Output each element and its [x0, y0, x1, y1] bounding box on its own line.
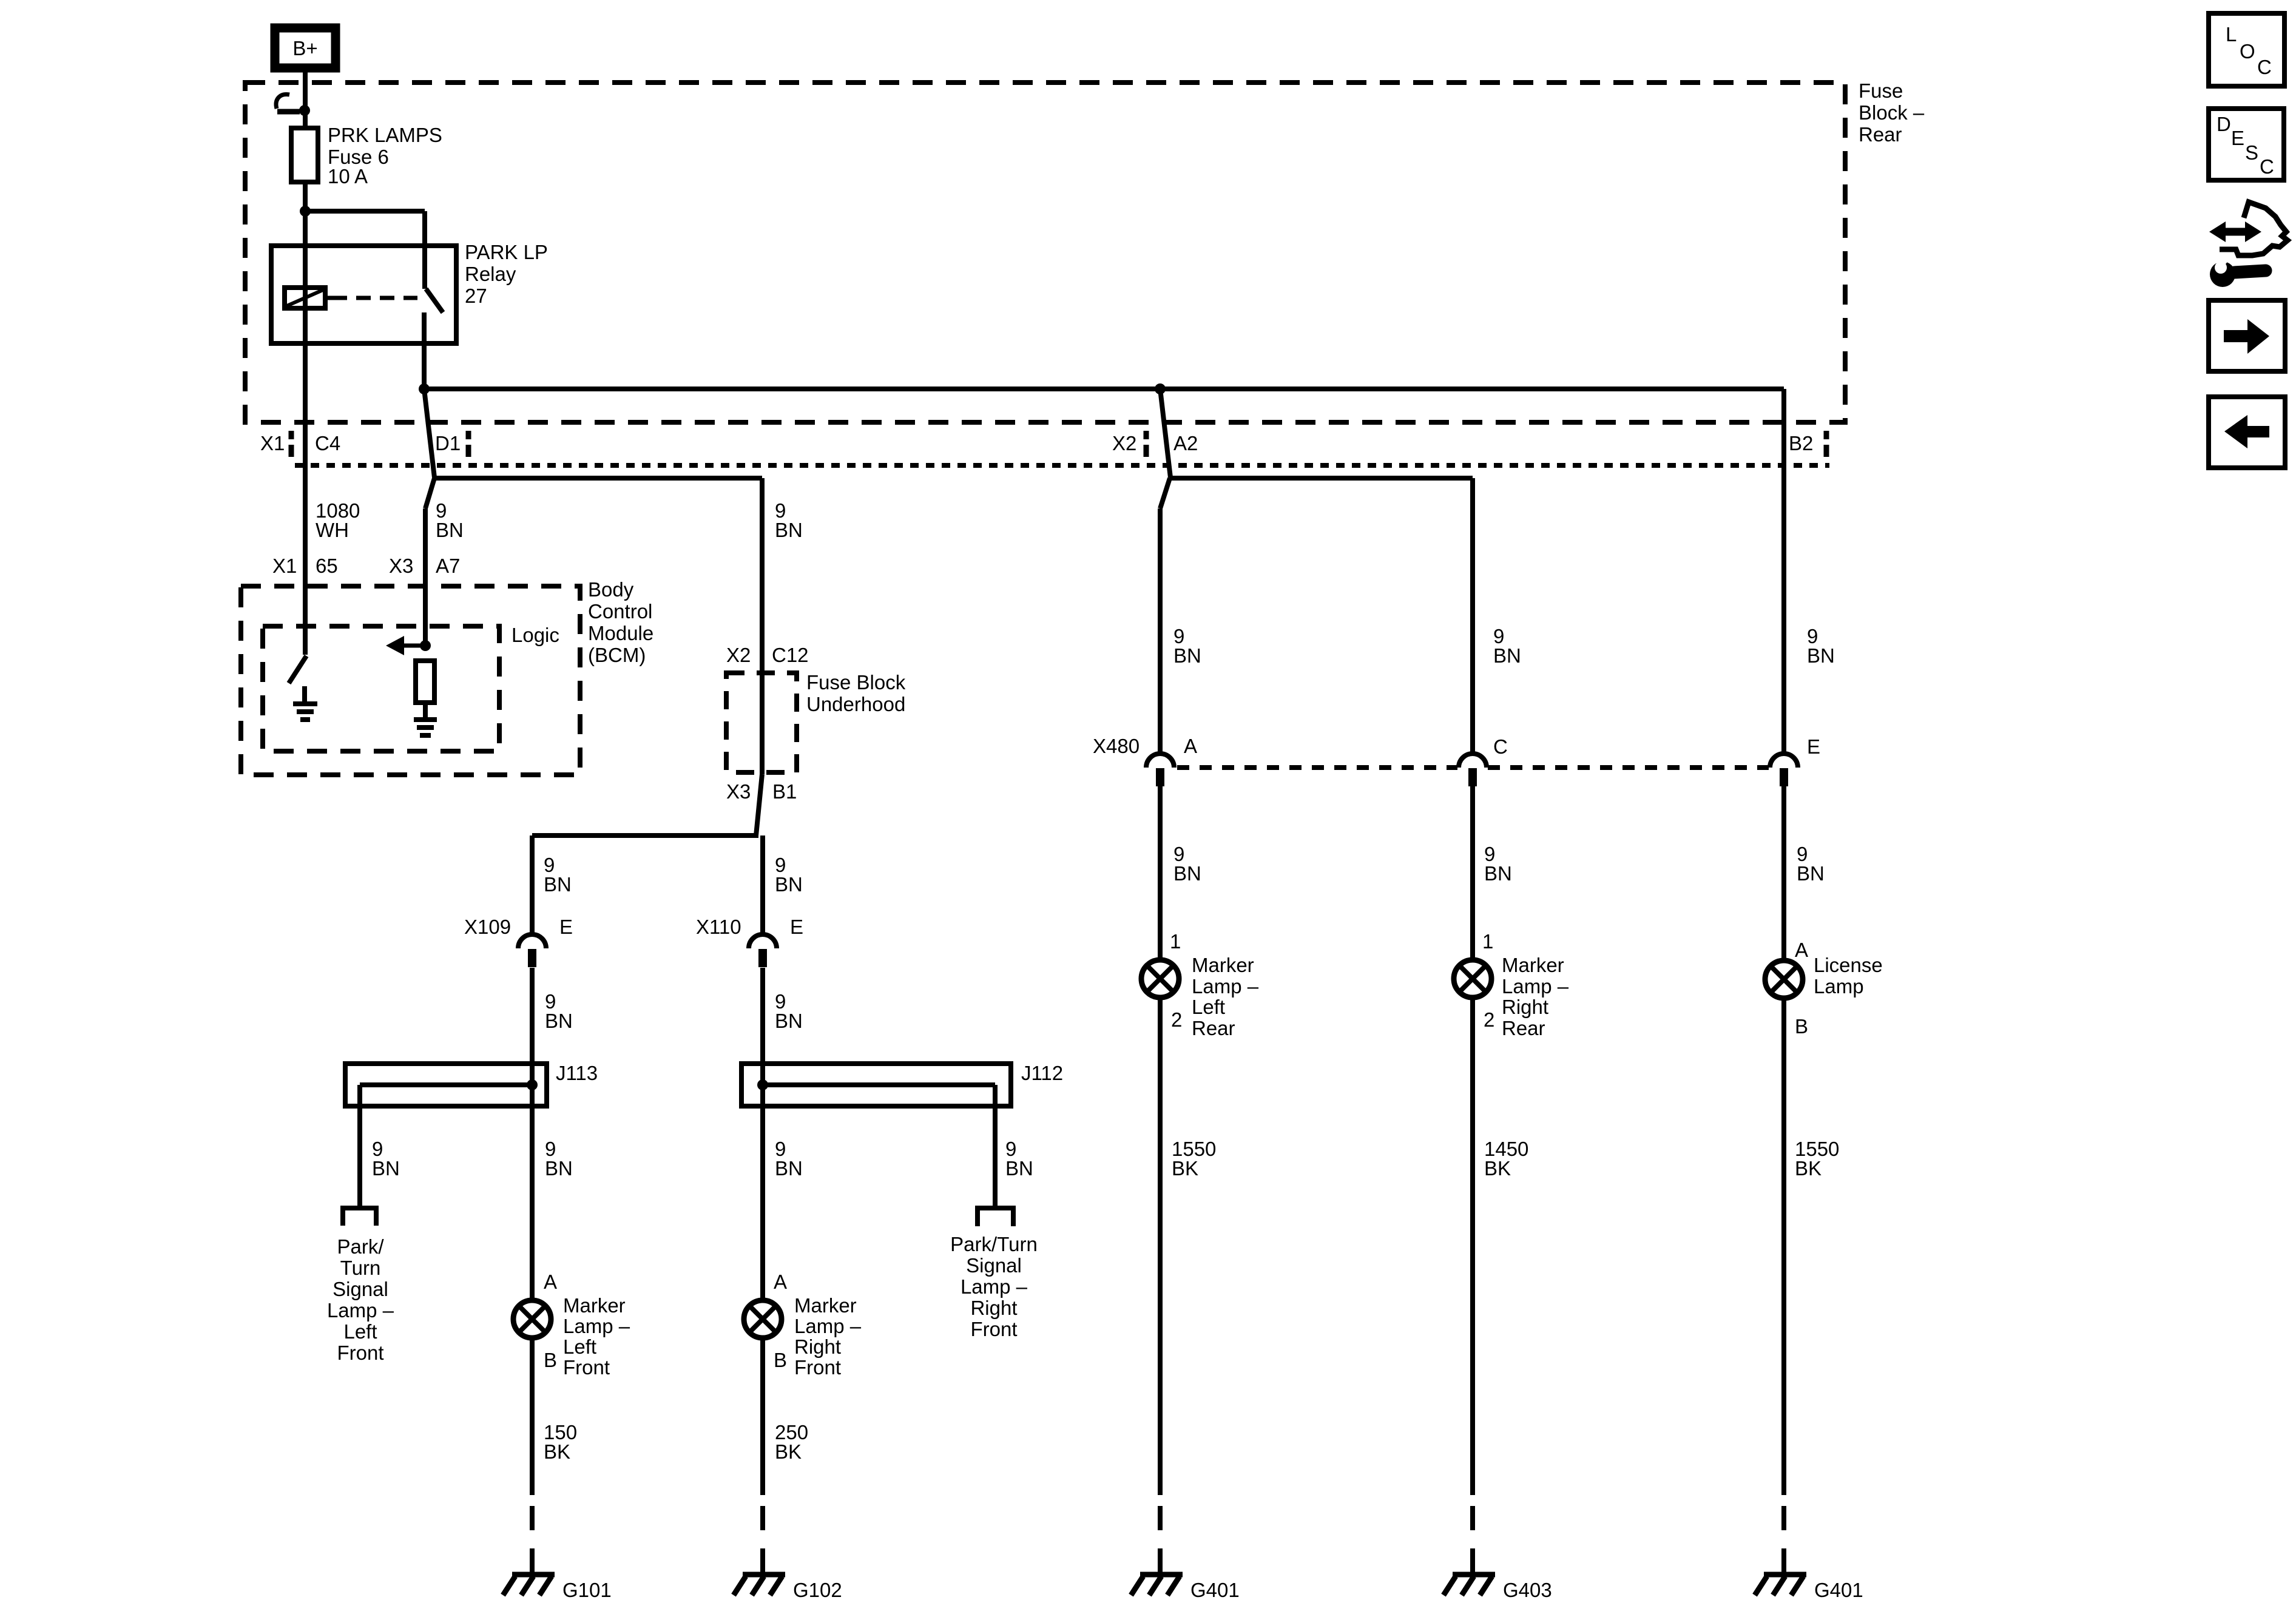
- svg-text:BK: BK: [1795, 1157, 1822, 1180]
- svg-text:X109: X109: [464, 916, 511, 938]
- connector tick X1|C4: [289, 431, 294, 439]
- svg-text:Front: Front: [970, 1318, 1017, 1340]
- svg-text:Lamp –: Lamp –: [563, 1315, 630, 1337]
- svg-text:10 A: 10 A: [328, 165, 368, 187]
- svg-text:A: A: [1184, 735, 1197, 757]
- relay switch output contact wire: [422, 312, 427, 389]
- svg-text:BN: BN: [545, 1157, 573, 1180]
- svg-text:A: A: [1795, 939, 1808, 961]
- svg-text:D1: D1: [435, 432, 461, 454]
- unterminated connector park/turn left front: [340, 1206, 379, 1210]
- svg-text:D: D: [2217, 113, 2231, 135]
- svg-text:X1: X1: [272, 555, 297, 577]
- svg-text:X110: X110: [696, 916, 741, 938]
- svg-text:Lamp –: Lamp –: [961, 1275, 1028, 1298]
- lamp: Marker Lamp - Right Rear: [1454, 960, 1491, 998]
- svg-text:BN: BN: [775, 1010, 803, 1032]
- svg-text:BN: BN: [436, 519, 464, 541]
- icon wrench: [2210, 262, 2235, 287]
- svg-text:Lamp –: Lamp –: [794, 1315, 862, 1337]
- connector X480 pin C symbol: [1459, 754, 1487, 768]
- svg-text:Park/Turn: Park/Turn: [950, 1233, 1038, 1255]
- connector X480 dashed line: [1177, 765, 1457, 770]
- connector X480 pin E symbol: [1770, 754, 1798, 768]
- svg-text:Marker: Marker: [1502, 954, 1564, 976]
- svg-text:BN: BN: [1173, 644, 1201, 667]
- svg-text:A7: A7: [436, 555, 460, 577]
- svg-text:Lamp –: Lamp –: [1502, 975, 1569, 998]
- node: tap junction dot: [299, 105, 310, 116]
- svg-text:(BCM): (BCM): [588, 644, 646, 666]
- svg-text:J113: J113: [556, 1062, 598, 1084]
- svg-text:Block –: Block –: [1859, 101, 1925, 124]
- svg-text:Marker: Marker: [1192, 954, 1254, 976]
- svg-text:B: B: [544, 1349, 557, 1371]
- wire lamp right rear to ground: [1470, 998, 1475, 1495]
- ground (BCM internal, switch): [293, 701, 317, 706]
- svg-text:B2: B2: [1789, 432, 1813, 454]
- lamp: License Lamp: [1765, 960, 1803, 998]
- svg-text:BN: BN: [544, 873, 572, 896]
- svg-text:Relay: Relay: [465, 263, 516, 285]
- svg-text:2: 2: [1171, 1008, 1182, 1031]
- fuse-block bus tap hook symbol: [276, 95, 289, 109]
- svg-text:1: 1: [1170, 930, 1181, 953]
- wire lamp left front to ground: [530, 1338, 535, 1495]
- svg-text:A2: A2: [1173, 432, 1198, 454]
- svg-text:BN: BN: [545, 1010, 573, 1032]
- svg-text:BN: BN: [775, 519, 803, 541]
- svg-text:BN: BN: [1493, 644, 1521, 667]
- lamp: Marker Lamp - Left Front: [513, 1300, 551, 1338]
- wire through J113 to marker lamp left front: [530, 1064, 535, 1300]
- wire branch to relay switch pin: [305, 209, 425, 214]
- svg-text:BK: BK: [1484, 1157, 1511, 1180]
- wire X109 to J113: [530, 968, 535, 1064]
- relay K27 PARK LP outline: [271, 246, 456, 343]
- svg-text:C: C: [2257, 56, 2272, 78]
- svg-text:Right: Right: [794, 1335, 841, 1358]
- svg-text:Right: Right: [970, 1297, 1017, 1319]
- svg-text:2: 2: [1484, 1008, 1494, 1031]
- svg-text:E: E: [559, 916, 573, 938]
- wire B1 drop and split to X109/X110: [756, 774, 762, 836]
- svg-text:G102: G102: [793, 1579, 842, 1601]
- wire X480 A to marker lamp left rear: [1158, 786, 1163, 960]
- svg-text:B: B: [1795, 1015, 1808, 1038]
- wire X110 to J112: [760, 968, 765, 1064]
- wire X480 C to marker lamp right rear: [1470, 786, 1475, 960]
- wire J113 branch to park/turn left front: [360, 1082, 532, 1087]
- svg-text:C: C: [1493, 735, 1508, 758]
- svg-text:BN: BN: [1005, 1157, 1033, 1180]
- icon box back arrow: [2209, 397, 2285, 468]
- icon hand with double arrow: [2220, 202, 2288, 255]
- node: BCM sense junction dot: [420, 640, 431, 651]
- connector X110 inline symbol: [749, 934, 777, 948]
- relay control dashed link: [333, 296, 417, 300]
- svg-text:Rear: Rear: [1859, 123, 1902, 146]
- svg-text:X3: X3: [389, 555, 413, 577]
- main bus wire from relay output to B2: [424, 387, 1784, 391]
- svg-text:B1: B1: [772, 780, 797, 803]
- svg-text:Lamp –: Lamp –: [327, 1299, 394, 1322]
- icon box DESC: [2209, 109, 2284, 180]
- svg-text:BK: BK: [775, 1440, 802, 1463]
- svg-text:Park/: Park/: [337, 1235, 384, 1258]
- svg-text:Rear: Rear: [1192, 1017, 1235, 1039]
- node: bus junction at relay output: [419, 383, 430, 394]
- connector X480 pin A symbol: [1146, 754, 1174, 768]
- svg-text:B: B: [774, 1349, 787, 1371]
- Fuse Block - Underhood dashed box: [726, 673, 797, 772]
- svg-text:X2: X2: [726, 644, 751, 666]
- connector tick B2: [1824, 431, 1829, 439]
- ground G102: [743, 1572, 785, 1578]
- svg-text:Front: Front: [337, 1342, 383, 1364]
- svg-text:G101: G101: [562, 1579, 612, 1601]
- svg-text:Fuse Block: Fuse Block: [806, 671, 906, 694]
- wire A2 drop to X480 A: [1160, 389, 1170, 478]
- svg-text:L: L: [2226, 23, 2237, 46]
- svg-text:Rear: Rear: [1502, 1017, 1545, 1039]
- ground (BCM internal, resistor): [414, 717, 437, 722]
- power feed B+ terminal box: [275, 28, 336, 68]
- wire C4 drop 1080 WH to BCM: [303, 288, 308, 655]
- svg-text:Fuse: Fuse: [1859, 79, 1903, 102]
- svg-text:BN: BN: [1484, 862, 1512, 885]
- wire X480 E to license lamp: [1781, 786, 1786, 960]
- svg-text:Signal: Signal: [333, 1278, 388, 1300]
- svg-text:Marker: Marker: [563, 1294, 626, 1317]
- svg-text:Left: Left: [343, 1320, 377, 1343]
- svg-text:C4: C4: [315, 432, 340, 454]
- wire B2 drop to X480 E: [1781, 389, 1786, 754]
- svg-text:X2: X2: [1112, 432, 1136, 454]
- svg-text:E: E: [1807, 735, 1820, 758]
- svg-text:Module: Module: [588, 622, 653, 644]
- node: bus junction at A2 drop: [1155, 383, 1166, 394]
- ground G101: [512, 1572, 555, 1578]
- svg-text:65: 65: [316, 555, 338, 577]
- svg-text:Logic: Logic: [512, 624, 559, 646]
- svg-text:A: A: [774, 1271, 787, 1293]
- unterminated connector park/turn right front: [975, 1206, 1016, 1210]
- wire B+ to fuse: [303, 72, 308, 128]
- icon box LOC: [2209, 13, 2284, 86]
- node: splice J113 dot: [527, 1079, 538, 1090]
- wire lamp left rear to ground: [1158, 998, 1163, 1495]
- connector tick D1: [466, 431, 471, 439]
- connector row dotted line X1/X2 (lower): [295, 463, 1829, 468]
- svg-text:Marker: Marker: [794, 1294, 857, 1317]
- svg-text:S: S: [2245, 141, 2258, 164]
- svg-text:B+: B+: [292, 37, 317, 59]
- lamp: Marker Lamp - Left Rear: [1141, 960, 1179, 998]
- svg-text:Body: Body: [588, 578, 634, 601]
- svg-text:Lamp: Lamp: [1814, 975, 1864, 998]
- Fuse Block - Rear dashed enclosure: [245, 83, 1845, 422]
- wire branch A2 to X480 C: [1169, 476, 1473, 481]
- svg-text:BK: BK: [1172, 1157, 1198, 1180]
- svg-text:E: E: [790, 916, 803, 938]
- svg-text:Right: Right: [1502, 996, 1548, 1018]
- svg-text:BN: BN: [372, 1157, 400, 1180]
- BCM Logic dashed box: [263, 626, 499, 751]
- svg-text:Left: Left: [563, 1335, 596, 1358]
- svg-text:BN: BN: [1807, 644, 1835, 667]
- svg-text:Turn: Turn: [340, 1257, 381, 1279]
- wire through J112 to marker lamp right front: [760, 1064, 765, 1300]
- wire D1 drop to BCM A7: [424, 389, 434, 478]
- relay coil: [285, 288, 325, 308]
- BCM internal switch (park lamp relay driver): [289, 656, 306, 683]
- connector tick X2|A2: [1144, 431, 1149, 439]
- splice box J113: [345, 1064, 547, 1106]
- svg-text:BN: BN: [775, 873, 803, 896]
- svg-text:G401: G401: [1190, 1579, 1240, 1601]
- resistor (BCM internal pull-up): [416, 661, 434, 703]
- BCM internal sense arrow: [402, 644, 425, 648]
- ground G401 (license): [1764, 1572, 1806, 1578]
- connector X109 inline symbol: [518, 934, 546, 948]
- relay switch pin and blade: [422, 246, 427, 289]
- svg-text:1: 1: [1482, 930, 1493, 953]
- svg-text:Control: Control: [588, 600, 652, 623]
- svg-text:BN: BN: [1797, 862, 1825, 885]
- wire lamp right front to ground: [760, 1338, 765, 1495]
- svg-text:J112: J112: [1021, 1062, 1063, 1084]
- svg-text:Underhood: Underhood: [806, 693, 905, 715]
- splice box J112: [741, 1064, 1011, 1106]
- svg-text:C: C: [2260, 155, 2274, 178]
- node: relay feed junction dot: [300, 206, 311, 217]
- svg-text:Left: Left: [1192, 996, 1225, 1018]
- node: splice J112 dot: [757, 1079, 768, 1090]
- svg-text:X1: X1: [260, 432, 285, 454]
- svg-text:Lamp –: Lamp –: [1192, 975, 1259, 998]
- svg-text:PARK LP: PARK LP: [465, 241, 548, 263]
- Body Control Module dashed box: [241, 586, 580, 775]
- fuse F6 PRK LAMPS 10A: [291, 128, 318, 182]
- svg-text:Signal: Signal: [966, 1254, 1022, 1277]
- svg-text:Front: Front: [563, 1356, 610, 1379]
- svg-text:BN: BN: [775, 1157, 803, 1180]
- svg-text:WH: WH: [316, 519, 349, 541]
- svg-text:BK: BK: [544, 1440, 570, 1463]
- wire J112 branch to park/turn right front: [763, 1082, 995, 1087]
- svg-text:27: 27: [465, 285, 487, 307]
- svg-text:X3: X3: [726, 780, 751, 803]
- icon box forward arrow: [2209, 300, 2285, 371]
- svg-text:X480: X480: [1093, 735, 1140, 757]
- wire branch D1 to underhood C12: [433, 476, 762, 481]
- svg-text:License: License: [1814, 954, 1883, 976]
- ground G401 (left rear): [1140, 1572, 1183, 1578]
- lamp: Marker Lamp - Right Front: [744, 1300, 782, 1338]
- svg-text:O: O: [2240, 40, 2255, 62]
- svg-text:A: A: [544, 1271, 557, 1293]
- svg-text:E: E: [2231, 127, 2244, 149]
- svg-text:G403: G403: [1503, 1579, 1552, 1601]
- ground G403: [1453, 1572, 1495, 1578]
- wire license lamp to ground: [1781, 998, 1786, 1495]
- svg-text:PRK LAMPS: PRK LAMPS: [328, 124, 442, 146]
- svg-text:G401: G401: [1814, 1579, 1863, 1601]
- svg-text:Front: Front: [794, 1356, 841, 1379]
- svg-text:BN: BN: [1173, 862, 1201, 885]
- svg-text:C12: C12: [772, 644, 809, 666]
- wire fuse to coil/switch split: [303, 182, 308, 288]
